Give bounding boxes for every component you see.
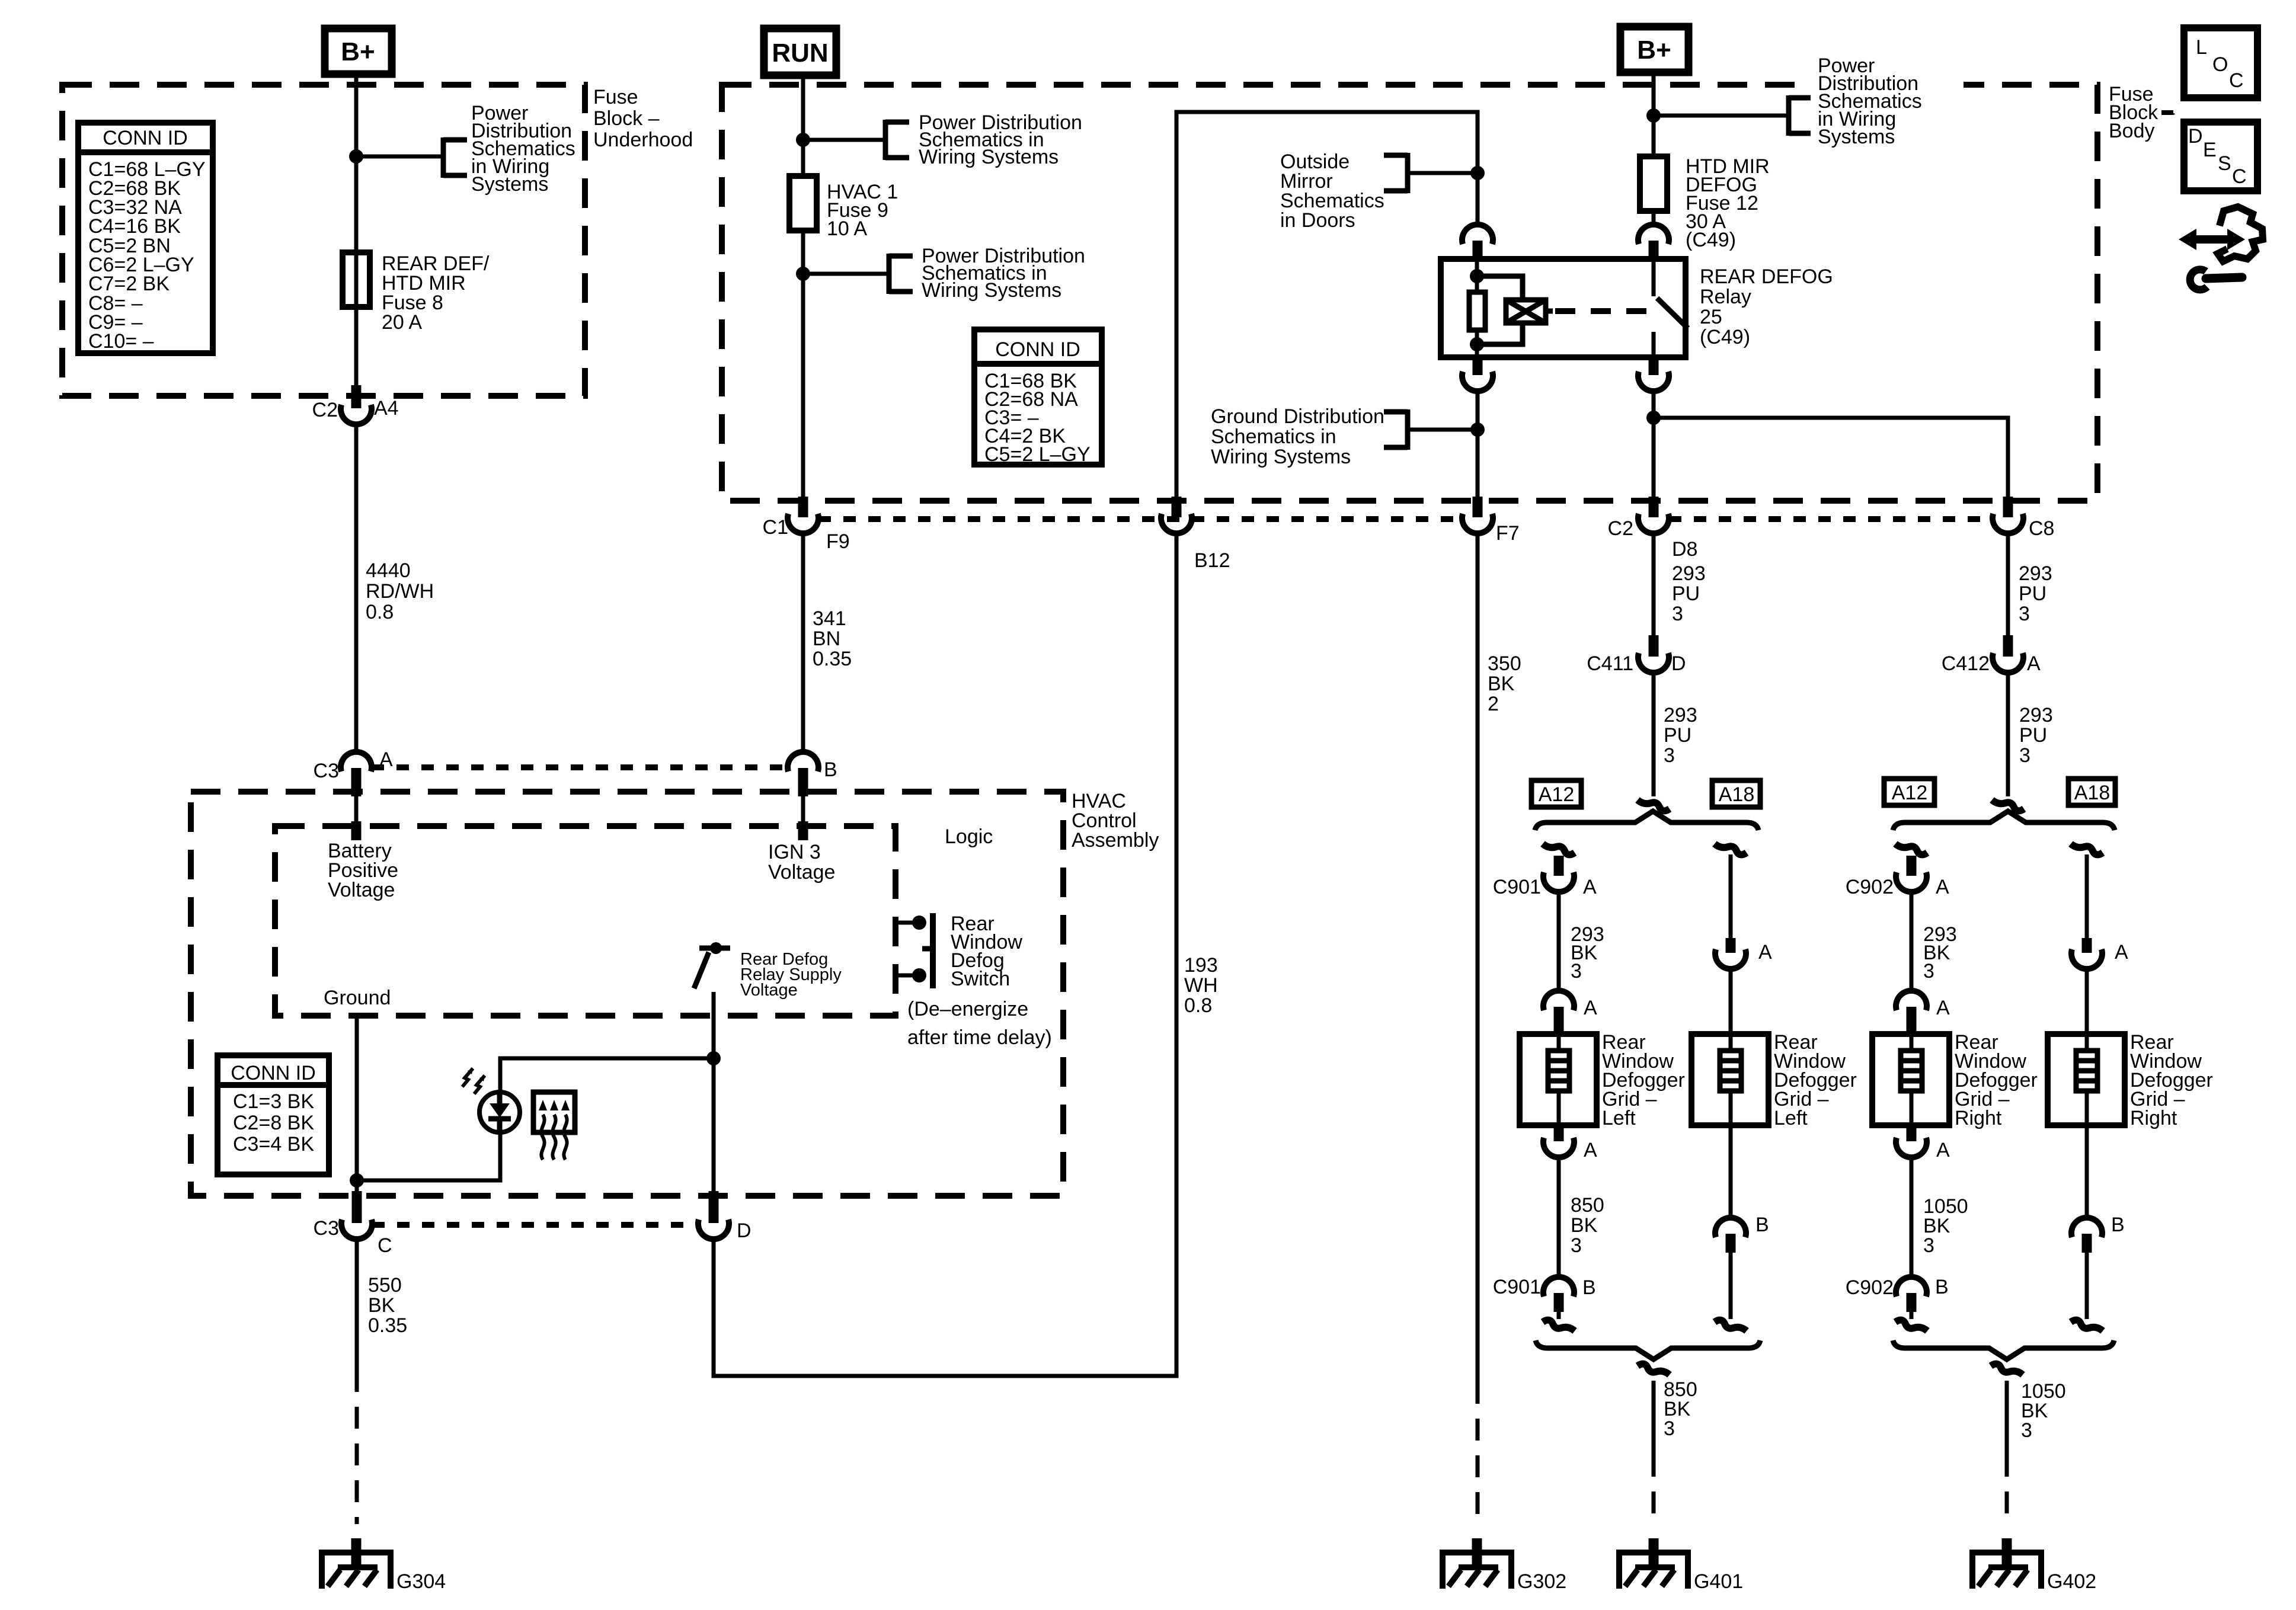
dotted connector row C3-D — [372, 1222, 698, 1228]
wire 1050 BK 3 branch — [1910, 1158, 1914, 1275]
svg-text:293: 293 — [1664, 704, 1697, 726]
ground G302 — [1440, 1550, 1446, 1589]
svg-text:0.35: 0.35 — [368, 1314, 407, 1337]
wire branch right — [2085, 854, 2089, 938]
svg-text:C1=3 BK: C1=3 BK — [233, 1090, 314, 1113]
svg-text:G302: G302 — [1517, 1570, 1566, 1593]
wire break squiggle left pair — [1638, 800, 1670, 811]
connector table CONN ID underhood — [78, 123, 213, 353]
svg-text:B: B — [824, 758, 837, 781]
svg-text:Body: Body — [2109, 120, 2155, 142]
node junction ground distribution reference — [1470, 422, 1485, 437]
svg-text:B12: B12 — [1194, 549, 1230, 572]
svg-text:850: 850 — [1571, 1194, 1604, 1217]
relay REAR DEFOG Relay 25 box — [1441, 259, 1686, 357]
connector table CONN ID HVAC — [218, 1055, 329, 1174]
DESC reference box — [2184, 122, 2257, 191]
svg-text:IGN 3: IGN 3 — [768, 841, 821, 863]
svg-text:Voltage: Voltage — [768, 861, 835, 884]
wire B+ down into fuse block — [354, 74, 359, 385]
wire below C412 — [2006, 673, 2010, 796]
svg-text:Ground Distribution: Ground Distribution — [1211, 405, 1384, 428]
svg-text:WH: WH — [1184, 974, 1218, 997]
svg-text:0.8: 0.8 — [1184, 994, 1212, 1017]
HVAC control assembly outer dashed box — [191, 792, 1063, 1196]
fuse block underhood dashed box — [62, 85, 585, 396]
RUN box (ignition run voltage) — [764, 28, 836, 75]
svg-text:193: 193 — [1184, 954, 1218, 977]
terminal box A18 left pair — [1712, 780, 1760, 807]
bracket power distribution reference 1 — [883, 120, 888, 160]
page margin tick — [2161, 110, 2173, 115]
node junction indicator ground branch — [350, 1173, 364, 1188]
svg-text:A12: A12 — [1892, 782, 1928, 804]
svg-text:C412: C412 — [1942, 652, 1990, 675]
node junction relay output split — [1646, 411, 1661, 425]
svg-text:C3=4 BK: C3=4 BK — [233, 1133, 314, 1156]
svg-text:293: 293 — [2019, 562, 2052, 585]
svg-text:B+: B+ — [1637, 36, 1671, 65]
wire 293 PU 3 lower left — [1652, 673, 1656, 796]
relay coil resistor — [1469, 292, 1485, 330]
LOC reference box — [2184, 28, 2257, 98]
svg-text:Right: Right — [1955, 1107, 2002, 1129]
rear window defog switch contacts — [896, 921, 916, 925]
svg-text:Voltage: Voltage — [740, 981, 798, 1000]
svg-text:A: A — [1936, 876, 1949, 898]
fuse block body dashed box — [722, 85, 2097, 501]
svg-text:4440: 4440 — [366, 559, 411, 582]
svg-text:BK: BK — [1488, 673, 1515, 695]
svg-text:PU: PU — [1664, 724, 1691, 747]
fuse F9 HVAC 1 10A — [789, 176, 817, 231]
rear window defogger grid box at 2630 — [1520, 1034, 1597, 1125]
svg-text:Left: Left — [1602, 1107, 1636, 1129]
svg-text:Switch: Switch — [951, 968, 1010, 990]
svg-text:Left: Left — [1774, 1107, 1808, 1129]
svg-text:D: D — [1671, 652, 1686, 675]
svg-text:3: 3 — [1664, 744, 1675, 767]
node junction to power distribution right — [1646, 108, 1661, 123]
svg-text:F9: F9 — [826, 530, 850, 553]
HVAC inner dashed box — [275, 826, 896, 1016]
wire fuse 12 to relay — [1652, 211, 1656, 225]
svg-text:Ground: Ground — [324, 987, 391, 1009]
wire 850 BK 3 branch — [1557, 1158, 1561, 1275]
relay suppressor branch — [1477, 276, 1523, 300]
wire 850 BK 3 to ground — [1652, 1381, 1656, 1455]
ground G401 — [1616, 1550, 1622, 1589]
svg-text:D: D — [2188, 125, 2203, 148]
svg-text:RD/WH: RD/WH — [366, 580, 434, 603]
wire break squiggle right pair — [1992, 800, 2024, 811]
LED arrows — [462, 1068, 473, 1087]
connector C412 pin A — [2003, 635, 2013, 657]
wire to bracket — [803, 138, 885, 142]
ground G402 — [1969, 1550, 1975, 1589]
svg-text:A18: A18 — [2074, 782, 2110, 804]
B+ box right — [1620, 27, 1689, 72]
svg-text:B: B — [1582, 1276, 1596, 1299]
connector B12 — [1172, 497, 1182, 517]
svg-text:Schematics in: Schematics in — [1211, 425, 1336, 448]
svg-text:Systems: Systems — [1818, 126, 1895, 148]
terminal box A18 right pair — [2068, 779, 2115, 805]
terminal box A12 right pair — [1884, 779, 1934, 805]
connector grid A right — [1726, 938, 1736, 953]
svg-text:Right: Right — [2130, 1107, 2177, 1129]
svg-text:G401: G401 — [1694, 1570, 1743, 1593]
connector C49 relay pins bottom — [1473, 357, 1483, 375]
svg-text:B: B — [1935, 1276, 1949, 1298]
svg-text:3: 3 — [2021, 1419, 2032, 1442]
LED indicator — [479, 1092, 520, 1132]
connector grid A right — [2082, 938, 2092, 953]
connector C901 pin B — [1543, 1277, 1574, 1297]
svg-text:A: A — [2027, 652, 2041, 675]
svg-text:B: B — [1755, 1214, 1769, 1236]
svg-text:A: A — [1936, 997, 1950, 1019]
bracket power distribution reference right — [1786, 95, 1792, 136]
wire fuse 9 to C1 — [801, 231, 805, 497]
branch squiggle right — [1715, 844, 1747, 854]
brace splice bottom pair 1 — [1536, 1340, 1760, 1359]
connector grid A top C902 — [1896, 991, 1927, 1010]
svg-text:3: 3 — [1571, 960, 1582, 982]
ground wire inside HVAC — [355, 1016, 359, 1191]
wire 341 BN 0.35 — [801, 533, 805, 751]
wire right branch below grid — [1729, 1125, 1733, 1217]
wire 293 BK 3 C902 — [1910, 892, 1914, 990]
connector C8 — [2003, 497, 2013, 517]
wire branch right — [1729, 854, 1733, 938]
svg-text:10 A: 10 A — [827, 217, 867, 240]
wire 550 BK 0.35 — [355, 1240, 359, 1370]
svg-text:after time delay): after time delay) — [907, 1026, 1052, 1049]
connector C902 pin B — [1896, 1277, 1927, 1297]
bracket power distribution reference — [441, 137, 446, 178]
svg-text:3: 3 — [1923, 960, 1934, 982]
connector pin B to HVAC (IGN 3) — [788, 752, 818, 772]
wire branch to C8 — [1654, 418, 2008, 497]
squiggle below brace 2 — [1991, 1364, 2023, 1375]
svg-text:G304: G304 — [396, 1570, 446, 1593]
svg-text:C902: C902 — [1846, 1276, 1894, 1299]
svg-text:A12: A12 — [1539, 783, 1575, 806]
svg-text:0.8: 0.8 — [366, 601, 394, 623]
node junction B+ to power distribution reference — [349, 149, 363, 164]
svg-text:CONN ID: CONN ID — [995, 338, 1080, 361]
wire 293 PU 3 upper left — [1652, 533, 1656, 635]
wire relay coil to F7 — [1476, 392, 1480, 497]
svg-text:PU: PU — [1672, 582, 1700, 605]
svg-text:PU: PU — [2019, 582, 2046, 605]
relay suppressor box with X — [1506, 300, 1546, 323]
fuse F12 HTD MIR DEFOG 30A — [1640, 156, 1667, 211]
wire dashed to G302 — [1476, 1382, 1480, 1524]
svg-text:A: A — [1936, 1139, 1950, 1161]
svg-text:E: E — [2203, 139, 2217, 161]
dotted connector row C1-F7 — [818, 516, 1462, 522]
svg-text:G402: G402 — [2047, 1570, 2096, 1593]
svg-text:BK: BK — [368, 1294, 395, 1317]
svg-text:C8: C8 — [2029, 517, 2054, 540]
svg-text:Voltage: Voltage — [328, 879, 395, 901]
wire 1050 BK 3 to ground — [2005, 1381, 2009, 1455]
svg-text:C3: C3 — [314, 760, 339, 782]
connector grid A top C901 — [1543, 991, 1574, 1010]
relay coil circuit — [1475, 259, 1479, 292]
connector table CONN ID body — [974, 329, 1102, 465]
svg-text:REAR DEFOG: REAR DEFOG — [1700, 265, 1833, 288]
connector grid bottom A left branch 1 — [1554, 1125, 1564, 1141]
svg-text:3: 3 — [2019, 744, 2030, 767]
svg-text:BK: BK — [1571, 1214, 1598, 1237]
svg-text:3: 3 — [1672, 603, 1683, 625]
connector C411 pin D — [1649, 635, 1659, 657]
svg-text:C: C — [2229, 69, 2244, 92]
bracket ground distribution schematics — [1405, 409, 1411, 450]
branch squiggle bottom right 2 — [2071, 1320, 2103, 1331]
svg-text:CONN ID: CONN ID — [231, 1062, 316, 1084]
wire 293 BK 3 C901 — [1557, 892, 1561, 990]
wire 193 WH 0.8 from D to B12 — [714, 533, 1176, 1376]
wire to grid box right — [1729, 969, 1733, 1034]
heated rear window icon — [533, 1092, 575, 1132]
svg-text:C2: C2 — [1608, 517, 1633, 540]
svg-text:3: 3 — [1664, 1417, 1675, 1440]
node junction indicator branch — [706, 1051, 721, 1065]
svg-text:341: 341 — [813, 607, 846, 630]
svg-text:550: 550 — [368, 1274, 402, 1297]
wire switch to pin D — [712, 992, 716, 1191]
svg-text:Underhood: Underhood — [593, 129, 693, 151]
rear window defogger grid box at 3225 — [1872, 1034, 1949, 1125]
svg-text:(C49): (C49) — [1686, 229, 1736, 251]
svg-text:25: 25 — [1700, 306, 1722, 328]
branch squiggle C901 A — [1543, 844, 1575, 854]
svg-text:(C49): (C49) — [1700, 326, 1750, 348]
indicator circuit wires — [357, 1132, 500, 1180]
svg-text:3: 3 — [1571, 1234, 1582, 1257]
wire right branch below grid 2 — [2085, 1125, 2089, 1217]
connector C3 pin A to HVAC control assembly — [341, 752, 372, 772]
svg-text:20 A: 20 A — [382, 311, 422, 334]
rear window defogger grid box at 2920 — [1691, 1034, 1769, 1125]
svg-text:3: 3 — [1923, 1234, 1934, 1257]
svg-text:350: 350 — [1488, 652, 1521, 675]
brace splice right pair — [1893, 811, 2115, 830]
ground G304 — [319, 1550, 325, 1589]
branch squiggle bottom left 2 — [1895, 1320, 1927, 1331]
svg-text:C5=2 L–GY: C5=2 L–GY — [984, 443, 1091, 466]
svg-text:A: A — [1758, 941, 1772, 964]
terminal box A12 left pair — [1531, 780, 1581, 807]
label Power Distribution Schematics in Wiring Systems right — [1811, 53, 1964, 149]
wire 4440 RD/WH 0.8 — [354, 424, 359, 753]
wire RUN feed down — [801, 75, 805, 176]
connector grid bottom A left branch 2 — [1907, 1125, 1917, 1141]
wire to grid box right — [2085, 969, 2089, 1034]
svg-text:D: D — [737, 1219, 752, 1242]
svg-text:CONN ID: CONN ID — [103, 127, 188, 149]
connector C901 pin A — [1554, 856, 1564, 876]
svg-text:C2=8 BK: C2=8 BK — [233, 1112, 314, 1134]
connector C3 pin C — [352, 1191, 362, 1223]
svg-text:B+: B+ — [341, 37, 375, 66]
svg-text:C2: C2 — [312, 399, 338, 421]
svg-text:A: A — [2115, 941, 2128, 964]
connector pin D — [709, 1191, 719, 1223]
branch squiggle bottom right 1 — [1715, 1320, 1747, 1331]
svg-text:S: S — [2218, 152, 2231, 175]
svg-text:C901: C901 — [1493, 1276, 1541, 1298]
rear window defogger grid box at 3521 — [2048, 1034, 2125, 1125]
rear defog relay supply voltage switch symbol — [699, 946, 730, 951]
svg-text:Relay: Relay — [1700, 286, 1751, 308]
svg-text:(De–energize: (De–energize — [907, 998, 1028, 1020]
svg-text:Fuse: Fuse — [593, 86, 638, 108]
wire B+ body feed — [1652, 72, 1656, 156]
connector pin B right branch 2 — [2071, 1218, 2102, 1237]
relay control dashed link — [1546, 309, 1553, 314]
svg-text:RUN: RUN — [772, 39, 828, 68]
svg-text:C1: C1 — [763, 516, 788, 539]
vehicle icon double arrow — [2193, 235, 2231, 244]
svg-text:3: 3 — [2019, 603, 2030, 625]
svg-text:PU: PU — [2019, 724, 2047, 747]
svg-text:A4: A4 — [374, 397, 399, 420]
wire 350 BK 2 from F7 — [1476, 533, 1480, 1382]
switch bar — [930, 913, 936, 988]
svg-text:0.35: 0.35 — [813, 648, 852, 670]
svg-text:C: C — [378, 1234, 392, 1257]
svg-text:C10= –: C10= – — [88, 330, 154, 353]
svg-text:293: 293 — [1672, 562, 1706, 585]
svg-text:A: A — [1583, 876, 1597, 898]
connector C902 pin A — [1907, 856, 1917, 876]
svg-text:293: 293 — [2019, 704, 2053, 726]
svg-text:Wiring Systems: Wiring Systems — [922, 279, 1061, 302]
svg-text:B: B — [2111, 1214, 2125, 1236]
node junction run to power distribution — [796, 133, 810, 147]
svg-text:C411: C411 — [1587, 652, 1633, 675]
svg-text:C902: C902 — [1846, 876, 1894, 898]
svg-text:C3: C3 — [314, 1217, 339, 1240]
svg-text:A18: A18 — [1719, 783, 1755, 806]
squiggle below brace 1 — [1638, 1364, 1670, 1375]
connector C2 pin D8 — [1649, 497, 1659, 517]
svg-text:Block –: Block – — [593, 107, 660, 130]
relay control loop wire from B12 up and over — [1176, 112, 1478, 497]
bracket outside mirror schematics — [1405, 153, 1411, 193]
svg-text:C: C — [2232, 165, 2247, 188]
svg-text:2: 2 — [1488, 693, 1499, 715]
brace splice bottom pair 2 — [1893, 1340, 2114, 1359]
svg-text:C901: C901 — [1493, 876, 1541, 898]
connector C2 pin A4 inline — [351, 385, 362, 408]
dotted connector row C2-C8 — [1669, 516, 1993, 522]
node junction outside mirror reference — [1470, 166, 1485, 180]
node junction to power distribution 2 — [796, 267, 810, 281]
connector C49 relay pins top — [1462, 225, 1493, 244]
svg-text:F7: F7 — [1496, 522, 1520, 545]
B+ box left (battery positive terminal) — [325, 28, 392, 74]
svg-text:L: L — [2196, 36, 2207, 59]
svg-text:Wiring Systems: Wiring Systems — [1211, 446, 1351, 468]
fuse F8 REAR DEF/HTD MIR 20A — [343, 252, 370, 307]
svg-text:Assembly: Assembly — [1072, 829, 1159, 852]
wire stub battery positive into HVAC — [354, 796, 359, 821]
wire dashed to G304 — [355, 1370, 359, 1524]
svg-text:A: A — [1584, 997, 1597, 1019]
wire to power distribution bracket — [356, 155, 443, 159]
wire relay output to C2 and C8 branch — [1652, 392, 1656, 497]
svg-text:Logic: Logic — [945, 825, 993, 848]
svg-text:Systems: Systems — [471, 173, 548, 196]
svg-text:Wiring Systems: Wiring Systems — [919, 146, 1059, 168]
brace splice left pair — [1535, 811, 1758, 830]
svg-text:O: O — [2212, 53, 2228, 76]
relay switch — [1652, 259, 1656, 296]
branch squiggle bottom left — [1543, 1320, 1575, 1331]
connector F7 — [1473, 497, 1483, 517]
bracket power distribution reference 2 — [887, 254, 892, 294]
svg-text:in Doors: in Doors — [1280, 209, 1355, 232]
dotted connector line C3 row — [372, 764, 788, 770]
vehicle icon outline — [2218, 207, 2263, 261]
svg-text:D8: D8 — [1672, 538, 1697, 561]
branch squiggle C902 A — [1895, 844, 1927, 854]
connector C1 pin F9 — [798, 497, 808, 517]
wrench icon — [2190, 270, 2207, 290]
connector pin B right branch 1 — [1715, 1218, 1746, 1237]
svg-text:A: A — [1584, 1139, 1597, 1161]
wire 293 PU 3 upper right pair — [2006, 533, 2010, 635]
svg-text:BN: BN — [813, 628, 840, 650]
branch squiggle right — [2071, 844, 2103, 854]
